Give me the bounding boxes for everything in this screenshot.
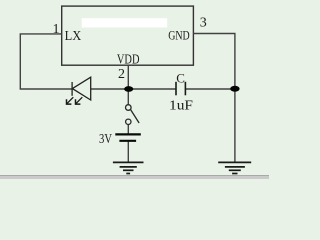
svg-text:2: 2 — [118, 67, 125, 82]
svg-text:GND: GND — [168, 28, 190, 43]
svg-text:3: 3 — [200, 15, 207, 30]
svg-text:VDD: VDD — [117, 52, 140, 67]
svg-text:C: C — [176, 70, 185, 85]
svg-text:1: 1 — [53, 22, 60, 37]
svg-text:1uF: 1uF — [169, 99, 193, 114]
svg-text:3V: 3V — [99, 132, 112, 147]
svg-text:LX: LX — [65, 29, 82, 44]
